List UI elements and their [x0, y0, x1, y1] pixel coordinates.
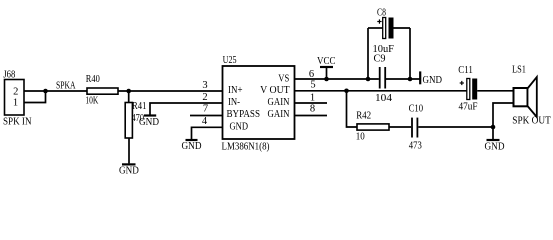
- svg-text:GND: GND: [423, 75, 443, 86]
- ground at IN-: [139, 116, 159, 129]
- svg-text:LM386N1(8): LM386N1(8): [222, 142, 270, 153]
- wire IC pin 6 VS to C9: [295, 78, 379, 80]
- speaker LS1: [514, 77, 537, 117]
- svg-text:R40: R40: [86, 74, 100, 85]
- wire J68 pin1 up to node SPKA: [24, 91, 46, 103]
- svg-text:5: 5: [310, 80, 315, 91]
- wire IC pin 1 GAIN stub: [295, 102, 328, 104]
- svg-text:R42: R42: [356, 111, 371, 122]
- svg-text:7: 7: [203, 104, 208, 115]
- svg-text:1: 1: [13, 97, 18, 108]
- resistor R40: [87, 88, 118, 94]
- svg-text:IN-: IN-: [228, 97, 240, 108]
- svg-text:1: 1: [310, 93, 315, 104]
- svg-text:104: 104: [375, 93, 393, 104]
- ground port GND right of C9: [420, 71, 442, 86]
- svg-text:10: 10: [356, 132, 365, 143]
- svg-text:2: 2: [202, 92, 207, 103]
- junction at VCC: [324, 77, 329, 82]
- capacitor C10: [412, 118, 417, 138]
- svg-text:47uF: 47uF: [459, 102, 478, 113]
- svg-text:C9: C9: [374, 54, 386, 65]
- svg-text:4: 4: [202, 116, 208, 127]
- junction C8 left: [366, 77, 371, 82]
- svg-text:SPKA: SPKA: [56, 81, 76, 92]
- junction node SPKA: [43, 89, 48, 94]
- svg-text:10K: 10K: [85, 96, 98, 107]
- wire IC pin 4 GND: [192, 127, 223, 139]
- svg-text:SPK OUT: SPK OUT: [512, 116, 551, 127]
- wire SPKA to R40: [46, 90, 88, 92]
- svg-text:J68: J68: [3, 70, 15, 81]
- svg-text:C10: C10: [409, 104, 424, 115]
- junction V OUT at R42 branch: [344, 89, 349, 94]
- svg-text:GND: GND: [485, 141, 505, 152]
- svg-text:VS: VS: [278, 73, 289, 84]
- wire C10 to ground junction: [418, 126, 493, 128]
- junction at speaker ground: [491, 125, 496, 130]
- ground below R41: [119, 164, 139, 176]
- wire IC pin 8 GAIN stub: [295, 115, 328, 117]
- svg-text:GND: GND: [182, 141, 202, 152]
- ground at pin 4: [182, 140, 202, 152]
- svg-text:SPK IN: SPK IN: [3, 117, 32, 128]
- svg-text:6: 6: [309, 69, 314, 80]
- svg-text:R41: R41: [132, 101, 146, 112]
- wire C8 right leg: [409, 28, 411, 79]
- svg-text:U25: U25: [223, 55, 237, 66]
- wire V OUT down to R42: [347, 91, 358, 127]
- svg-text:IN+: IN+: [228, 85, 243, 96]
- resistor R41: [125, 91, 132, 163]
- svg-text:BYPASS: BYPASS: [227, 109, 261, 120]
- svg-text:C11: C11: [458, 65, 473, 76]
- wire R42 to C10: [389, 126, 411, 128]
- junction at R41 top: [126, 89, 131, 94]
- wire R40 to IC pin 3: [118, 90, 223, 92]
- wire IC pin 5 V OUT to C11: [295, 90, 467, 92]
- wire IC pin 2 IN-: [150, 103, 223, 115]
- wire C9 to GND port: [386, 78, 420, 80]
- junction C8 right: [408, 77, 413, 82]
- svg-text:GND: GND: [230, 121, 249, 132]
- capacitor C11: [460, 79, 478, 100]
- svg-text:8: 8: [310, 104, 315, 115]
- ground at speaker: [485, 127, 505, 152]
- wire J68 pin2 to node SPKA: [24, 90, 46, 92]
- svg-text:VCC: VCC: [317, 56, 336, 67]
- svg-text:2: 2: [13, 86, 18, 97]
- capacitor C9: [380, 67, 386, 89]
- connector J68: [5, 80, 25, 116]
- svg-text:LS1: LS1: [512, 64, 526, 75]
- svg-text:GAIN: GAIN: [268, 109, 290, 120]
- IC U25 LM386: [223, 66, 295, 139]
- svg-text:GND: GND: [139, 117, 159, 128]
- svg-text:GAIN: GAIN: [268, 97, 290, 108]
- svg-text:3: 3: [202, 80, 207, 91]
- resistor R42: [357, 124, 389, 130]
- wire C8 left leg: [367, 28, 369, 79]
- svg-text:V OUT: V OUT: [260, 85, 290, 96]
- svg-text:473: 473: [409, 141, 422, 152]
- wire C11 to speaker: [477, 90, 513, 92]
- capacitor C8: [368, 18, 410, 39]
- wire junction up to speaker bottom terminal: [493, 103, 514, 127]
- svg-text:GND: GND: [119, 166, 139, 177]
- wire IC pin 7 BYPASS stub: [190, 115, 223, 117]
- svg-text:C8: C8: [377, 7, 386, 18]
- power VCC: [317, 56, 336, 79]
